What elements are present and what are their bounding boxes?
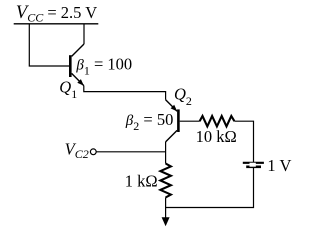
battery V1 1V	[243, 163, 264, 167]
wire Q1 emitter to Q2 emitter	[84, 86, 166, 100]
transistor Q2	[166, 100, 200, 142]
resistor R2 1 kOhm	[160, 164, 171, 198]
transistor Q1	[70, 44, 84, 86]
svg-text:10 kΩ: 10 kΩ	[196, 127, 237, 146]
svg-text:1 kΩ: 1 kΩ	[125, 171, 158, 190]
resistor R1 10 kOhm	[200, 116, 235, 126]
wire rail to Q1 collector	[83, 24, 85, 44]
ground arrow	[162, 208, 170, 227]
wire VC2 to collector node	[96, 151, 165, 153]
wire 1k to ground node	[165, 198, 167, 208]
wire battery to bottom rail	[166, 168, 254, 208]
wire 10k to battery	[234, 121, 253, 162]
wire Q2 collector down to resistor	[165, 142, 167, 164]
wire rail to Q1 base	[29, 24, 69, 66]
VCC rail	[14, 23, 99, 25]
node VC2 terminal	[90, 149, 96, 155]
svg-text:1 V: 1 V	[267, 156, 291, 175]
